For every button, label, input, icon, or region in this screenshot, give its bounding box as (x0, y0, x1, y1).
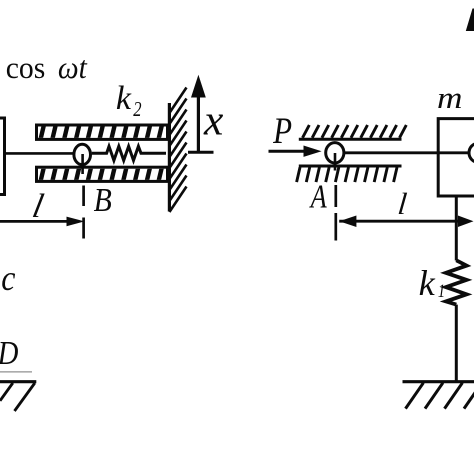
svg-text:m: m (437, 82, 462, 115)
svg-text:ωt: ωt (58, 50, 88, 85)
svg-text:2: 2 (133, 98, 142, 121)
svg-text:k: k (116, 80, 132, 117)
svg-text:c: c (1, 259, 15, 298)
svg-text:1: 1 (438, 280, 445, 301)
svg-text:cos: cos (6, 51, 46, 86)
svg-text:A: A (309, 177, 327, 215)
svg-text:k: k (419, 263, 436, 303)
svg-text:D: D (0, 334, 19, 372)
svg-text:x: x (203, 96, 223, 144)
svg-text:P: P (272, 111, 292, 151)
svg-text:B: B (94, 180, 112, 218)
